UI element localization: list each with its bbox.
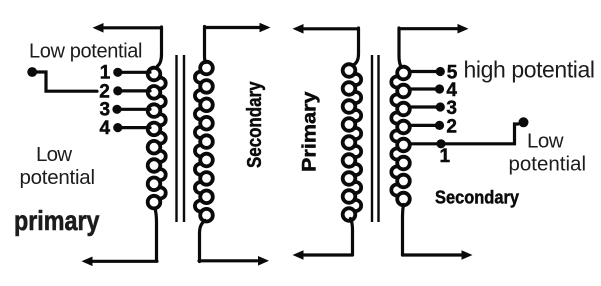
svg-text:potential: potential — [20, 166, 96, 189]
wire T2 bottom-left rail — [293, 250, 353, 260]
wire low-potential input to tap 2 — [32, 72, 97, 91]
wire T2 primary top lead — [354, 28, 359, 65]
wire T2 top-right rail — [399, 24, 469, 34]
wire T2 top-left rail — [293, 24, 358, 34]
transformer T1 secondary winding L2 — [195, 62, 213, 222]
wire T1 primary bottom lead — [155, 209, 157, 262]
node T2 tap 4 — [410, 84, 444, 93]
node T1 tap 3 — [112, 105, 150, 114]
wire T1 top-left rail — [93, 23, 161, 33]
svg-text:potential: potential — [509, 153, 587, 176]
wire T2 secondary bottom lead — [403, 205, 404, 256]
wire T2 secondary top lead — [399, 28, 401, 66]
node low-potential input terminal — [27, 67, 37, 77]
transformer T1 core — [177, 55, 185, 222]
transformer T1 primary winding L1 — [148, 68, 166, 209]
svg-text:Low: Low — [527, 130, 564, 153]
svg-text:1: 1 — [440, 146, 451, 167]
node T1 tap 4 — [113, 123, 150, 132]
node T2 tap 5 — [410, 67, 445, 76]
svg-text:primary: primary — [14, 205, 100, 236]
svg-text:4: 4 — [100, 118, 111, 139]
svg-text:Primary: Primary — [300, 91, 321, 172]
svg-text:Low potential: Low potential — [29, 41, 143, 63]
wire T2 tap 1 to low-potential terminal — [410, 124, 518, 144]
node low-potential output terminal — [519, 117, 529, 127]
transformer T2 secondary winding L4 — [391, 67, 409, 206]
node T2 tap 3 — [410, 102, 445, 111]
svg-text:high potential: high potential — [464, 57, 596, 83]
node T1 tap 1 — [113, 68, 150, 77]
wire T1 secondary bottom lead — [200, 221, 206, 262]
svg-text:Secondary: Secondary — [244, 81, 266, 168]
wire T2 bottom-right rail — [403, 250, 473, 260]
node T2 tap 1 junction — [436, 139, 445, 148]
wire T1 secondary top lead — [205, 27, 206, 63]
svg-text:Low: Low — [36, 143, 72, 166]
transformer T2 primary winding L3 — [343, 64, 361, 221]
wire T2 primary bottom lead — [351, 219, 353, 256]
wire T1 bottom-right rail — [199, 256, 269, 266]
transformer T2 core — [372, 55, 379, 222]
node T2 tap 2 — [410, 121, 444, 130]
svg-text:Secondary: Secondary — [435, 188, 519, 208]
wire T1 primary top lead — [158, 27, 162, 66]
node T1 tap 2 — [113, 86, 150, 95]
svg-text:2: 2 — [446, 116, 457, 137]
wire T1 top-right rail — [205, 23, 271, 33]
wire T1 bottom-left rail — [82, 257, 158, 267]
